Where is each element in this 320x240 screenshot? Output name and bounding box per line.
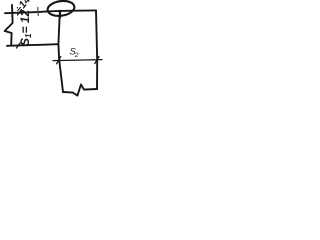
plate S2 left face (wire): [58, 11, 63, 92]
dimension tick S1 top: [18, 10, 22, 16]
dimension tick right (slash): [95, 56, 99, 63]
plate S2 break line (zigzag bottom end): [63, 85, 97, 96]
dimension tick S1 bottom: [17, 43, 21, 49]
dimension line S2: [53, 60, 102, 61]
weld seam stem: [59, 11, 61, 17]
weld seam tick on top edge: [37, 8, 39, 16]
plate S2 right face (wire): [96, 10, 97, 89]
weld detail callout ellipse: [47, 0, 76, 18]
svg-text:S1= 12: S1= 12: [18, 10, 33, 46]
plate S1 bottom edge (wire): [7, 44, 58, 46]
plate S1 top edge (wire): [5, 10, 96, 13]
dimension tick left (slash): [57, 57, 61, 64]
plate S1 break line (zigzag left end): [5, 5, 13, 45]
